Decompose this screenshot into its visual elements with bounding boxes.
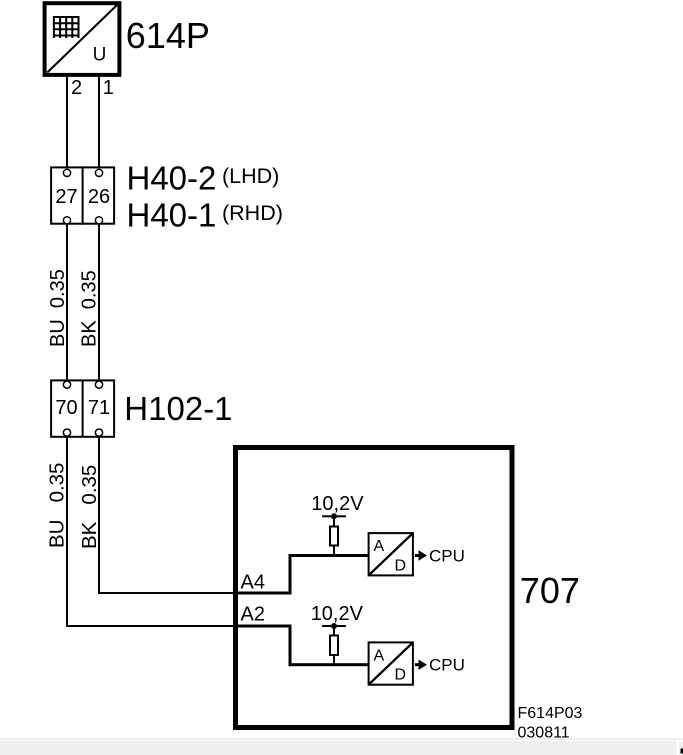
svg-text:BU 0.35: BU 0.35 bbox=[47, 269, 69, 347]
svg-text:F614P03: F614P03 bbox=[518, 705, 583, 722]
svg-text:BU 0.35: BU 0.35 bbox=[46, 463, 69, 548]
svg-text:70: 70 bbox=[55, 397, 77, 419]
svg-text:(RHD): (RHD) bbox=[222, 201, 283, 225]
svg-text:2: 2 bbox=[71, 77, 82, 99]
svg-text:A: A bbox=[374, 538, 385, 555]
svg-text:614P: 614P bbox=[126, 15, 210, 56]
svg-text:27: 27 bbox=[55, 186, 77, 208]
svg-text:10,2V: 10,2V bbox=[311, 603, 364, 625]
svg-text:707: 707 bbox=[520, 570, 580, 611]
svg-text:H40-1: H40-1 bbox=[127, 196, 217, 233]
svg-text:D: D bbox=[395, 557, 407, 574]
svg-text:A4: A4 bbox=[241, 572, 265, 594]
svg-text:CPU: CPU bbox=[429, 547, 465, 566]
svg-text:H102-1: H102-1 bbox=[124, 390, 232, 427]
svg-text:26: 26 bbox=[88, 186, 110, 208]
svg-text:D: D bbox=[395, 667, 407, 684]
svg-text:U: U bbox=[93, 44, 107, 65]
svg-text:71: 71 bbox=[88, 397, 110, 419]
svg-text:1: 1 bbox=[103, 77, 114, 99]
svg-text:BK 0.35: BK 0.35 bbox=[79, 270, 101, 347]
svg-text:A2: A2 bbox=[241, 604, 265, 626]
svg-text:A: A bbox=[374, 647, 385, 664]
svg-text:H40-2: H40-2 bbox=[127, 159, 217, 196]
svg-text:BK 0.35: BK 0.35 bbox=[78, 465, 101, 549]
svg-text:10,2V: 10,2V bbox=[311, 493, 364, 515]
svg-text:(LHD): (LHD) bbox=[222, 164, 279, 188]
svg-text:CPU: CPU bbox=[429, 656, 465, 675]
